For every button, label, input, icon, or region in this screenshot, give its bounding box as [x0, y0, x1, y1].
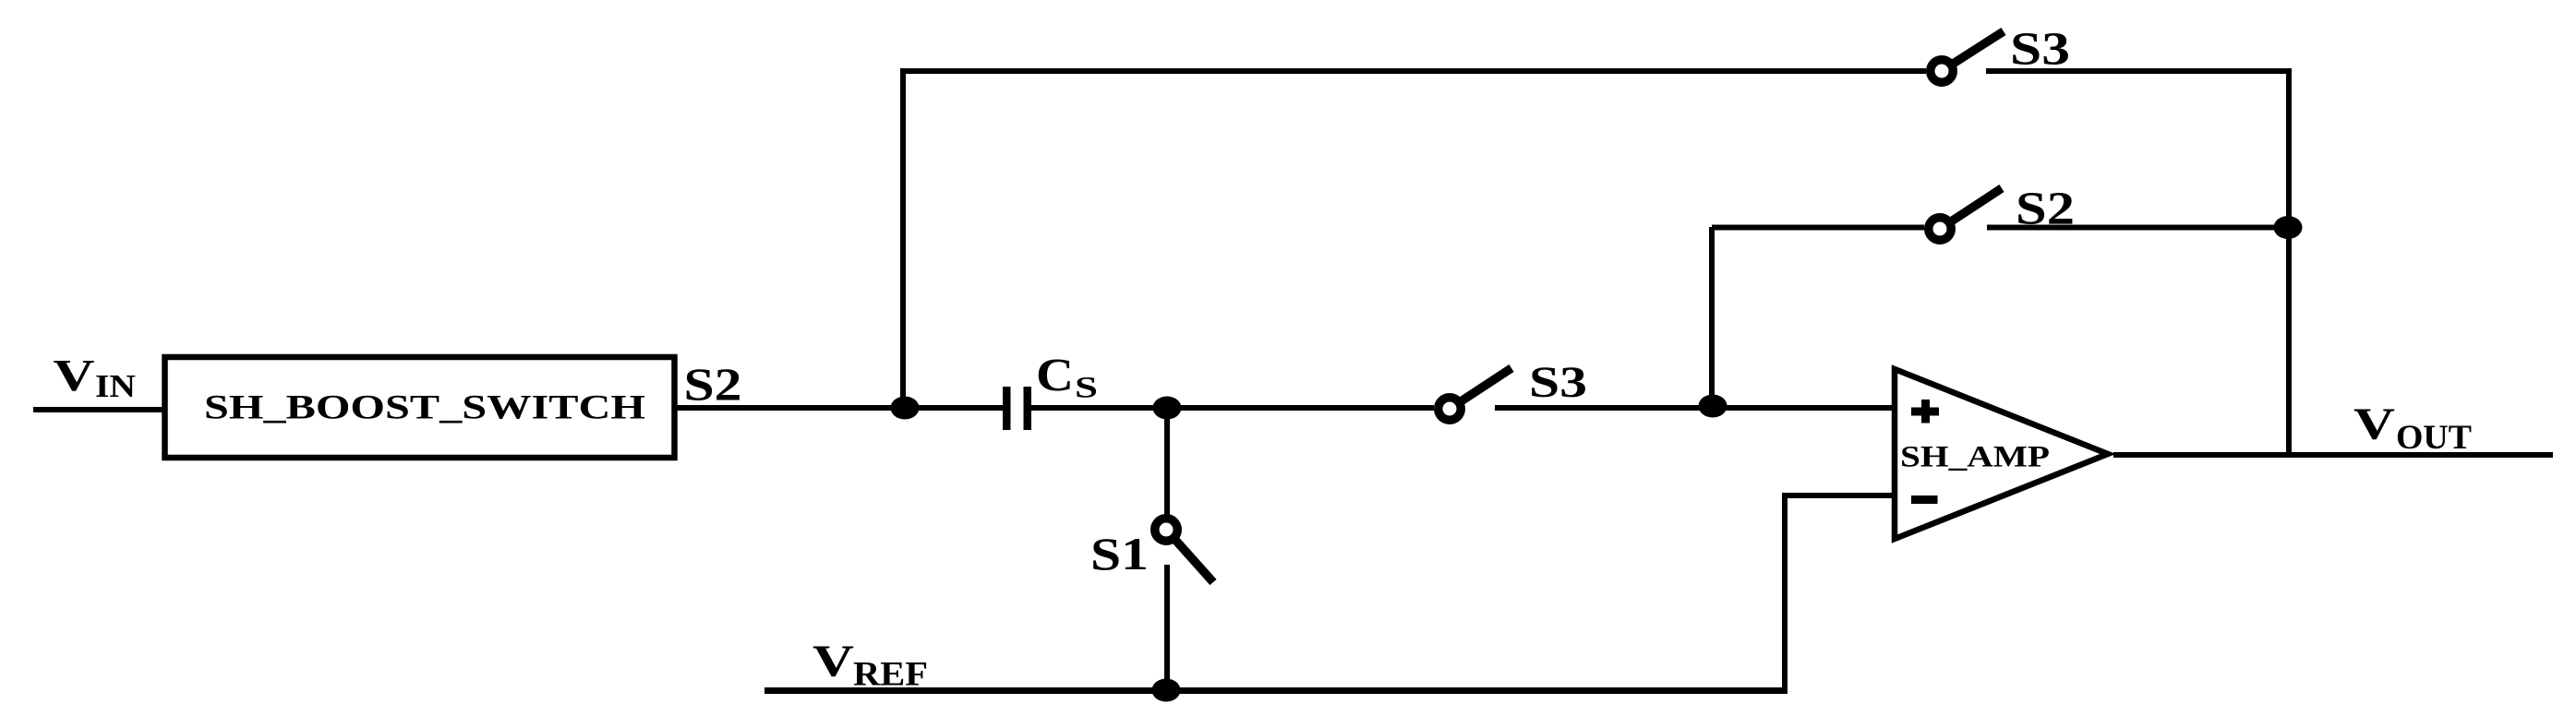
svg-text:IN: IN — [95, 368, 136, 404]
svg-text:S2: S2 — [2016, 184, 2075, 235]
svg-text:SH_AMP: SH_AMP — [1900, 441, 2050, 474]
svg-text:S3: S3 — [1529, 358, 1587, 407]
svg-text:V: V — [813, 636, 854, 686]
svg-text:OUT: OUT — [2396, 419, 2472, 457]
svg-text:V: V — [2353, 399, 2395, 449]
svg-text:S2: S2 — [684, 358, 742, 410]
svg-text:V: V — [54, 350, 95, 400]
svg-text:S: S — [1075, 372, 1098, 405]
svg-text:SH_BOOST_SWITCH: SH_BOOST_SWITCH — [204, 388, 645, 426]
svg-text:S1: S1 — [1090, 528, 1149, 579]
svg-text:REF: REF — [853, 656, 928, 694]
svg-text:S3: S3 — [2010, 24, 2070, 76]
svg-text:C: C — [1036, 351, 1074, 402]
